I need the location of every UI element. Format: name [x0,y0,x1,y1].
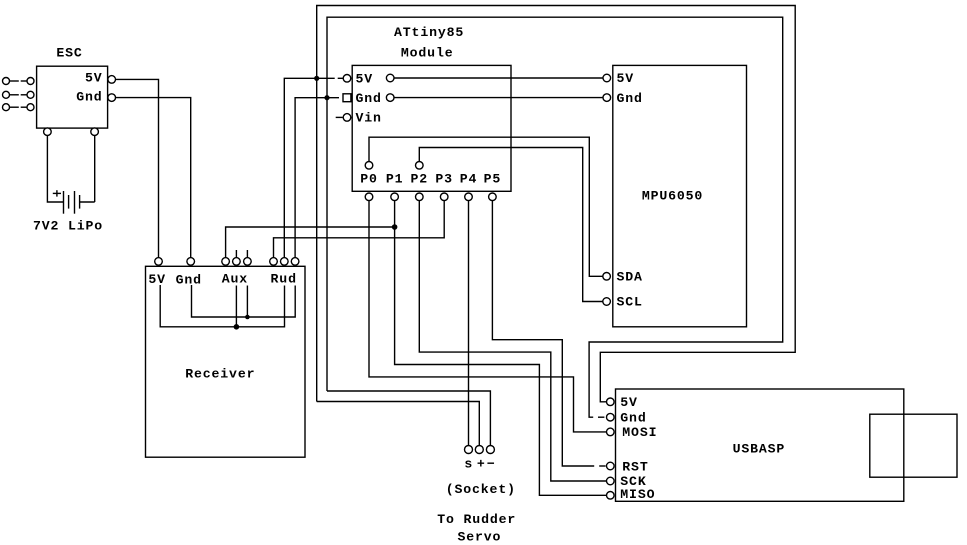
svg-text:5V: 5V [617,71,635,86]
svg-text:−: − [487,456,496,471]
svg-text:ATtiny85: ATtiny85 [394,25,464,40]
svg-text:P0: P0 [360,172,378,187]
svg-text:Aux: Aux [222,272,248,287]
svg-text:MOSI: MOSI [622,425,657,440]
svg-text:SCL: SCL [617,295,643,310]
svg-text:ESC: ESC [56,46,82,61]
svg-text:5V: 5V [356,72,374,87]
svg-text:Vin: Vin [356,111,382,126]
svg-text:Servo: Servo [457,530,501,545]
svg-text:MISO: MISO [620,487,655,502]
svg-text:Module: Module [401,46,454,61]
svg-text:SDA: SDA [617,270,643,285]
svg-text:5V: 5V [85,71,103,86]
svg-text:P3: P3 [435,172,453,187]
svg-text:(Socket): (Socket) [446,482,516,497]
svg-text:P5: P5 [484,172,502,187]
svg-text:P4: P4 [460,172,478,187]
svg-text:Gnd: Gnd [620,410,646,425]
svg-text:MPU6050: MPU6050 [642,188,703,203]
svg-text:Receiver: Receiver [185,367,255,382]
svg-text:5V: 5V [620,395,638,410]
svg-text:Gnd: Gnd [617,91,643,106]
svg-text:To Rudder: To Rudder [437,512,516,527]
svg-text:USBASP: USBASP [733,441,786,456]
svg-text:7V2 LiPo: 7V2 LiPo [33,219,103,234]
svg-text:Gnd: Gnd [176,272,202,287]
svg-text:P2: P2 [411,172,429,187]
svg-text:Rud: Rud [271,272,297,287]
svg-text:Gnd: Gnd [356,91,382,106]
svg-text:+: + [477,456,486,471]
svg-text:RST: RST [622,459,648,474]
svg-text:P1: P1 [386,172,404,187]
svg-text:Gnd: Gnd [76,89,102,104]
svg-text:5V: 5V [148,272,166,287]
svg-text:s: s [464,456,473,471]
